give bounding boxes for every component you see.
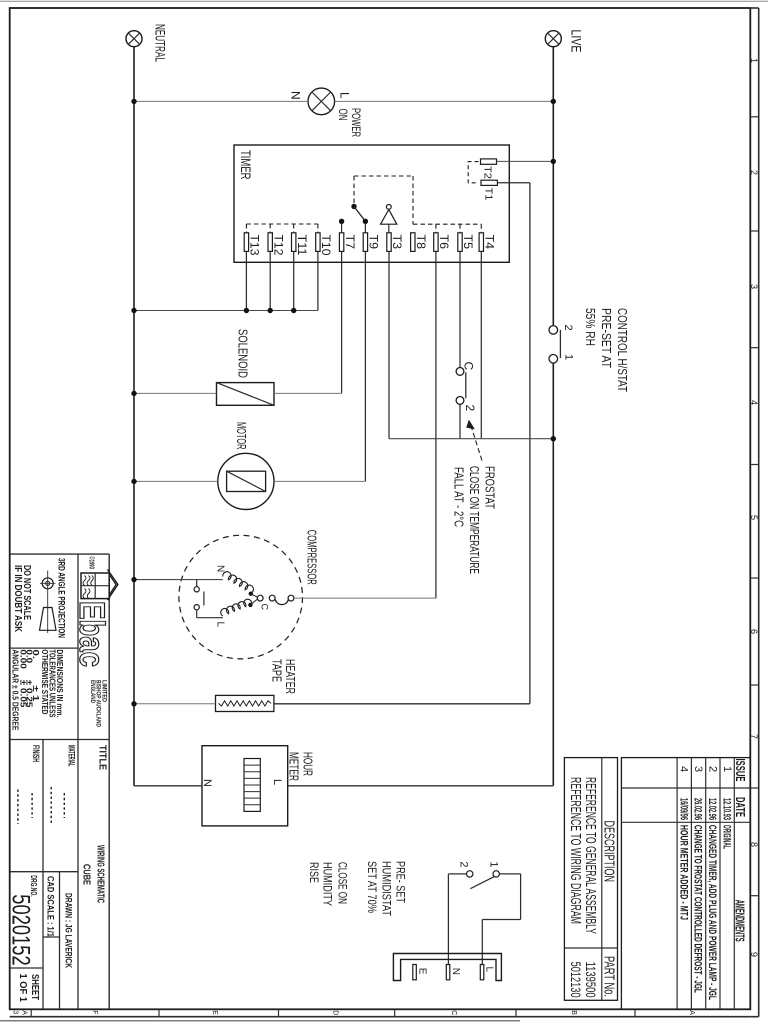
svg-text:FROSTAT: FROSTAT bbox=[483, 466, 497, 509]
junction bbox=[291, 308, 296, 313]
live terminal bbox=[545, 31, 561, 47]
timer terminal T5 bbox=[458, 233, 462, 252]
svg-text:T10: T10 bbox=[319, 235, 333, 256]
svg-text:L: L bbox=[215, 622, 226, 628]
wire humidistat 2 to plug N bbox=[448, 873, 466, 875]
timer terminal T10 bbox=[316, 233, 320, 252]
timer terminal T6 bbox=[434, 233, 438, 252]
control humidistat switch contact 2 bbox=[549, 326, 558, 335]
svg-text:COMPRESSOR: COMPRESSOR bbox=[304, 530, 319, 585]
frostat contact 2 bbox=[456, 397, 464, 405]
heater tape R1 bbox=[216, 695, 274, 711]
frostat contact C bbox=[456, 368, 464, 376]
svg-text:C: C bbox=[450, 1010, 457, 1015]
svg-text:N: N bbox=[289, 91, 303, 100]
svg-text:POWER: POWER bbox=[349, 108, 363, 137]
svg-text:HOUR: HOUR bbox=[301, 752, 315, 776]
svg-text:CUBE: CUBE bbox=[80, 864, 91, 885]
svg-text:©1993: ©1993 bbox=[88, 557, 96, 570]
wire neutral to motor bbox=[134, 480, 218, 482]
svg-text:RISE: RISE bbox=[307, 862, 321, 883]
svg-text:B: B bbox=[570, 1010, 577, 1015]
timer terminal T1 bbox=[481, 180, 497, 185]
timer terminal T3 bbox=[387, 233, 391, 252]
compressor overload protector bbox=[269, 595, 275, 601]
svg-text:2: 2 bbox=[458, 861, 470, 867]
svg-text:5012130: 5012130 bbox=[568, 962, 584, 998]
wire T1 to heater tape bbox=[497, 182, 530, 184]
svg-text:D: D bbox=[332, 1010, 339, 1015]
svg-text:AMENDMENTS: AMENDMENTS bbox=[733, 900, 748, 942]
svg-text:REFERENCE TO WIRING DIAGRAM: REFERENCE TO WIRING DIAGRAM bbox=[567, 777, 584, 924]
wire neutral to lamp bbox=[134, 100, 308, 102]
junction bbox=[551, 99, 556, 104]
svg-text:MOTOR: MOTOR bbox=[234, 422, 249, 450]
svg-text:T11: T11 bbox=[295, 235, 309, 256]
svg-text:CHANGE TO FROSTAT CONTROLLED D: CHANGE TO FROSTAT CONTROLLED DEFROST - J… bbox=[692, 825, 704, 993]
title block frame bbox=[10, 553, 110, 555]
wire T6 to compressor bbox=[435, 251, 437, 598]
neutral terminal bbox=[126, 31, 142, 47]
wire neutral rail to hour meter bbox=[134, 785, 202, 787]
junction bbox=[131, 99, 136, 104]
hour meter counter bbox=[244, 759, 260, 812]
plug pin E bbox=[413, 965, 417, 980]
svg-text:ON: ON bbox=[336, 109, 350, 121]
svg-text:A: A bbox=[21, 1010, 28, 1015]
svg-text:SHEET: SHEET bbox=[29, 974, 40, 1000]
svg-text:Ebac: Ebac bbox=[72, 601, 111, 667]
svg-text:4: 4 bbox=[749, 400, 759, 405]
svg-text:4: 4 bbox=[678, 766, 690, 772]
svg-text:2: 2 bbox=[463, 405, 477, 412]
svg-text:CHANGED TIMER, ADD PLUG AND PO: CHANGED TIMER, ADD PLUG AND POWER LAMP -… bbox=[706, 825, 718, 1000]
svg-text:TIMER: TIMER bbox=[238, 150, 253, 180]
compressor common terminal C bbox=[251, 594, 258, 598]
svg-text:1139500: 1139500 bbox=[583, 962, 599, 998]
mains plug P1 bbox=[393, 954, 501, 981]
svg-text:12.02.96: 12.02.96 bbox=[706, 798, 718, 820]
svg-text:PRE-SET AT: PRE-SET AT bbox=[599, 308, 614, 368]
wire T2 to live rail bbox=[497, 160, 554, 162]
frostat note arrow bbox=[472, 428, 483, 461]
wire T10 down bbox=[317, 251, 319, 310]
svg-text:2: 2 bbox=[562, 325, 574, 331]
humidistat contact 2 bbox=[467, 871, 473, 877]
wire T3 down bbox=[388, 251, 390, 438]
svg-text:HEATER: HEATER bbox=[283, 659, 297, 694]
svg-text:16/09/96: 16/09/96 bbox=[677, 798, 689, 820]
svg-text:SOLENOID: SOLENOID bbox=[236, 329, 251, 378]
svg-text:12.10.93: 12.10.93 bbox=[721, 798, 733, 820]
svg-text:C: C bbox=[260, 604, 270, 611]
svg-text:1: 1 bbox=[488, 861, 500, 867]
svg-text:3: 3 bbox=[692, 766, 704, 772]
svg-text:L: L bbox=[338, 92, 352, 99]
svg-text:PART No.: PART No. bbox=[600, 956, 617, 997]
plug pin L bbox=[480, 965, 484, 980]
svg-text:ENGLAND: ENGLAND bbox=[89, 680, 96, 703]
wire T9 to motor bbox=[364, 251, 366, 481]
svg-text:N: N bbox=[215, 565, 226, 572]
sheet top edge bbox=[0, 0, 768, 2]
wire hour meter to switched live bbox=[288, 785, 554, 787]
frostat blade bbox=[465, 372, 467, 398]
timer dashed link T2-T1 bbox=[468, 162, 478, 183]
junction bbox=[131, 308, 136, 313]
sheet bottom edge bbox=[0, 1020, 520, 1022]
compressor relay contact upper bbox=[196, 580, 198, 587]
svg-text:L: L bbox=[484, 967, 495, 973]
svg-text:OTHERWISE STATED: OTHERWISE STATED bbox=[40, 649, 49, 714]
svg-text:55% RH: 55% RH bbox=[583, 308, 598, 346]
svg-text:1: 1 bbox=[563, 354, 575, 360]
solenoid L1 bbox=[217, 383, 275, 406]
wire T5 to frostat bbox=[459, 251, 461, 367]
svg-text:MATERIAL: MATERIAL bbox=[67, 745, 77, 767]
svg-text:1 OF 1: 1 OF 1 bbox=[17, 974, 28, 1003]
svg-text:5020152: 5020152 bbox=[7, 894, 35, 965]
svg-text:C: C bbox=[462, 362, 476, 371]
humidistat blade bbox=[470, 876, 495, 888]
junction bbox=[131, 701, 136, 706]
timer dashed cam linkage bbox=[353, 176, 355, 203]
timer U1 box bbox=[234, 145, 509, 262]
svg-text:T5: T5 bbox=[461, 235, 475, 250]
junction winding start bbox=[249, 592, 253, 596]
svg-text:CLOSE ON: CLOSE ON bbox=[335, 862, 349, 904]
svg-text:LIVE: LIVE bbox=[569, 30, 585, 53]
svg-text:CAD SCALE : 1/1: CAD SCALE : 1/1 bbox=[46, 876, 56, 937]
svg-text:T8: T8 bbox=[414, 235, 428, 250]
wire T12 down bbox=[269, 251, 271, 310]
svg-text:L: L bbox=[271, 779, 283, 785]
junction winding run bbox=[248, 603, 252, 607]
svg-text:26.02.96: 26.02.96 bbox=[692, 798, 704, 820]
wire neutral to solenoid bbox=[134, 392, 217, 394]
hour meter box bbox=[202, 746, 288, 826]
svg-text:NEUTRAL: NEUTRAL bbox=[153, 24, 169, 62]
svg-text:CLOSE ON TEMPERATURE: CLOSE ON TEMPERATURE bbox=[467, 466, 481, 574]
wire lamp to live rail bbox=[335, 100, 554, 102]
compressor relay contact lower bbox=[194, 605, 199, 610]
compressor relay blade bbox=[203, 592, 205, 606]
svg-text:WIRING SCHEMATIC: WIRING SCHEMATIC bbox=[95, 845, 106, 903]
timer dashed link T13-T10 bbox=[246, 223, 318, 225]
svg-text:2: 2 bbox=[749, 170, 759, 175]
svg-text:CONTROL H/STAT: CONTROL H/STAT bbox=[615, 308, 630, 392]
timer terminal T8 bbox=[411, 233, 415, 252]
logo house roof bbox=[108, 570, 118, 601]
svg-text:ORIGINAL: ORIGINAL bbox=[721, 825, 733, 849]
svg-text:ISSUE: ISSUE bbox=[733, 759, 748, 782]
svg-text:ANGULAR ± 0.5 DEGREE: ANGULAR ± 0.5 DEGREE bbox=[11, 649, 20, 731]
wire switched live rail bbox=[552, 363, 554, 786]
junction bbox=[268, 308, 273, 313]
svg-text:N: N bbox=[201, 779, 213, 787]
svg-text:TAPE: TAPE bbox=[270, 659, 284, 682]
svg-text:3: 3 bbox=[12, 1010, 19, 1014]
svg-text:T7: T7 bbox=[343, 235, 357, 250]
timer contact T9 bbox=[363, 219, 368, 224]
svg-text:DESCRIPTION: DESCRIPTION bbox=[600, 821, 617, 883]
junction bbox=[131, 391, 136, 396]
svg-text:F: F bbox=[91, 1010, 98, 1014]
wire solenoid to T7 bbox=[274, 392, 342, 394]
wire compressor to T6 bbox=[294, 597, 436, 599]
svg-text:2: 2 bbox=[706, 766, 718, 772]
svg-text:T13: T13 bbox=[248, 235, 262, 256]
svg-text:IF IN DOUBT ASK: IF IN DOUBT ASK bbox=[12, 565, 23, 633]
svg-text:E: E bbox=[211, 1010, 218, 1015]
junction bbox=[244, 308, 249, 313]
svg-text:T2: T2 bbox=[482, 166, 493, 179]
svg-text:PRE- SET: PRE- SET bbox=[394, 861, 408, 904]
svg-text:5: 5 bbox=[749, 515, 759, 520]
timer defrost heater symbol bbox=[386, 205, 391, 210]
svg-text:TITLE: TITLE bbox=[97, 745, 108, 770]
timer terminal T7 bbox=[339, 233, 343, 252]
svg-text:6: 6 bbox=[749, 629, 759, 634]
svg-text:3RD ANGLE PROJECTION: 3RD ANGLE PROJECTION bbox=[56, 558, 66, 638]
svg-text:DRAWN : JG LAVERICK: DRAWN : JG LAVERICK bbox=[63, 893, 74, 968]
timer terminal T9 bbox=[363, 233, 367, 252]
wire relay to run winding bbox=[196, 610, 198, 618]
svg-text:A: A bbox=[688, 1010, 695, 1015]
humidistat contact 1 bbox=[493, 871, 499, 877]
junction bbox=[551, 159, 556, 164]
wire defrost net to live rail bbox=[389, 438, 553, 440]
timer terminal T2 bbox=[481, 159, 497, 164]
motor M1 bbox=[218, 453, 274, 509]
compressor dashed outline bbox=[179, 535, 303, 659]
svg-text:HUMIDISTAT: HUMIDISTAT bbox=[380, 861, 394, 917]
junction bbox=[131, 577, 136, 582]
timer terminal T11 bbox=[292, 233, 296, 252]
timer switch arm bbox=[354, 207, 365, 222]
timer terminal T13 bbox=[244, 233, 248, 252]
timer terminal T4 bbox=[479, 233, 483, 252]
svg-text:N: N bbox=[450, 968, 461, 975]
amendments table bbox=[621, 758, 750, 1010]
wire live rail upper bbox=[552, 47, 554, 326]
control humidistat switch contact 1 bbox=[549, 355, 558, 364]
svg-text:T1: T1 bbox=[483, 188, 494, 201]
description table bbox=[564, 758, 617, 1001]
svg-text:DATE: DATE bbox=[733, 797, 748, 817]
svg-text:T4: T4 bbox=[483, 235, 497, 250]
svg-text:T9: T9 bbox=[367, 235, 381, 250]
timer switch pivot bbox=[351, 204, 356, 209]
svg-text:7: 7 bbox=[749, 734, 759, 739]
plug pin N bbox=[446, 965, 450, 980]
wire neutral rail bbox=[133, 47, 135, 786]
wire humidistat 1 to plug L bbox=[500, 873, 521, 875]
svg-text:1: 1 bbox=[721, 766, 733, 772]
wire T7 to solenoid bbox=[341, 251, 343, 393]
svg-text:FALL AT - 2°C: FALL AT - 2°C bbox=[452, 467, 466, 527]
wire neutral bus to T10 bbox=[134, 310, 318, 312]
svg-text:SET AT 70%: SET AT 70% bbox=[365, 861, 379, 913]
junction bbox=[551, 436, 556, 441]
wire neutral to heater tape bbox=[134, 703, 216, 705]
svg-text:T12: T12 bbox=[271, 235, 285, 256]
wire T11 down bbox=[293, 251, 295, 310]
svg-text:HOUR METER ADDED - MTJ: HOUR METER ADDED - MTJ bbox=[677, 825, 689, 920]
junction bbox=[131, 479, 136, 484]
timer terminal T12 bbox=[268, 233, 272, 252]
wire neutral to compressor bbox=[134, 579, 223, 581]
wire frostat to net bbox=[459, 404, 461, 438]
lamp PL1 POWER ON bbox=[308, 88, 335, 115]
svg-text:1: 1 bbox=[749, 58, 759, 63]
wire motor to T9 bbox=[274, 480, 365, 482]
svg-text:T3: T3 bbox=[390, 235, 404, 250]
svg-text:T6: T6 bbox=[437, 235, 451, 250]
svg-text:E: E bbox=[417, 968, 428, 975]
wire T4 down bbox=[480, 251, 482, 438]
svg-text:3: 3 bbox=[749, 284, 759, 289]
control humidistat blade bbox=[559, 330, 561, 358]
svg-text:HUMIDITY: HUMIDITY bbox=[321, 862, 335, 906]
wire T13 down bbox=[245, 251, 247, 310]
timer contact T7 bbox=[339, 219, 344, 224]
svg-text:METER: METER bbox=[287, 752, 301, 781]
svg-text:FINISH: FINISH bbox=[31, 745, 41, 762]
